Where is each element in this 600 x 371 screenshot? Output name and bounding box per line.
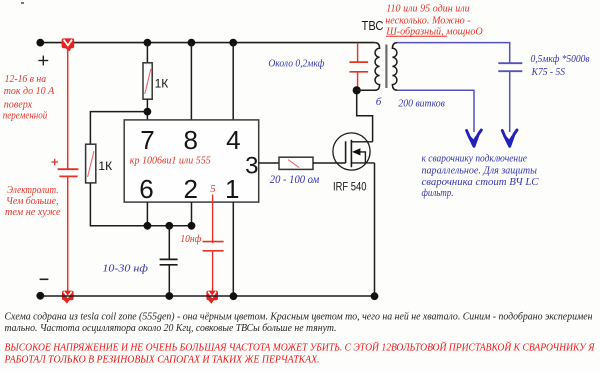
node pin4 top junction bbox=[229, 39, 237, 47]
svg-text:Схема содрана из tesla coil zo: Схема содрана из tesla coil zone (555gen… bbox=[5, 311, 593, 322]
node pin7/R1 top junction bbox=[144, 39, 152, 47]
resistor R1 1K bbox=[143, 63, 152, 99]
svg-text:200 витков: 200 витков bbox=[398, 98, 445, 110]
node C2 ground junction bbox=[165, 292, 173, 300]
wire C2 top lead bbox=[168, 226, 170, 259]
wire red electrolytic to bottom X bbox=[67, 176, 69, 293]
node pin8 top junction bbox=[188, 39, 196, 47]
wire R1 bottom to pin7 bbox=[146, 99, 148, 120]
output arrow right (blue) bbox=[502, 130, 517, 146]
transistor Q1 IRF540 bbox=[333, 133, 375, 170]
svg-text:5: 5 bbox=[210, 183, 216, 195]
node source ground junction bbox=[371, 292, 379, 300]
svg-text:0,5мкф *5000в: 0,5мкф *5000в bbox=[531, 53, 590, 65]
wire bottom rail bbox=[40, 295, 374, 297]
svg-text:ток до 10 А: ток до 10 А bbox=[4, 85, 55, 97]
underline transformer note bbox=[386, 35, 447, 37]
svg-text:1: 1 bbox=[225, 174, 239, 204]
wire pin4 drop bbox=[232, 43, 234, 120]
capacitor C4 0.2uf red across primary : top lead bbox=[357, 43, 359, 62]
svg-text:10нф: 10нф bbox=[180, 233, 201, 245]
resistor R2 1K bbox=[86, 144, 96, 183]
output arrow left (blue) bbox=[467, 130, 482, 146]
svg-text:110 или 95 один или: 110 или 95 один или bbox=[386, 3, 470, 15]
svg-text:сварочника стоит ВЧ LC: сварочника стоит ВЧ LC bbox=[422, 176, 540, 188]
resistor R3 red diagonal bbox=[288, 160, 299, 168]
svg-text:IRF 540: IRF 540 bbox=[333, 179, 367, 193]
svg-text:переменной: переменной bbox=[3, 110, 48, 122]
node pin1 ground junction bbox=[230, 292, 238, 300]
resistor R3 gate 20-100 ohm bbox=[279, 157, 313, 169]
svg-text:тально. Частота осциллятора ок: тально. Частота осциллятора около 20 Кгц… bbox=[5, 323, 337, 334]
wire pin6 drop bbox=[146, 202, 148, 226]
transformer T1 primary winding bbox=[357, 43, 380, 91]
wire pin2 drop bbox=[191, 202, 193, 226]
connector X mark ground (red) bbox=[206, 291, 218, 304]
svg-text:К75 - 5S: К75 - 5S bbox=[531, 66, 566, 78]
connector X mark bottom (red) bbox=[62, 291, 74, 304]
wire junction to R2 top bbox=[90, 112, 147, 145]
svg-text:Электролит.: Электролит. bbox=[7, 184, 59, 196]
node pin6 mid junction bbox=[144, 222, 152, 230]
wire pin3 lead bbox=[259, 162, 279, 164]
wire R3 to gate bbox=[313, 162, 346, 164]
svg-text:фильтр.: фильтр. bbox=[422, 187, 454, 199]
svg-text:3: 3 bbox=[245, 153, 258, 180]
capacitor electrolytic plates bbox=[58, 169, 79, 176]
minus label battery negative bbox=[40, 278, 49, 280]
capacitor C3 plates 10nf (red) bbox=[203, 242, 224, 251]
wire C2 bottom lead bbox=[168, 265, 170, 296]
wire source to ground rail bbox=[374, 163, 376, 296]
wire R1 top lead bbox=[146, 43, 148, 63]
capacitor C4 plates bbox=[350, 62, 369, 72]
svg-text:2: 2 bbox=[183, 174, 197, 204]
svg-text:20 - 100 ом: 20 - 100 ом bbox=[270, 174, 320, 186]
transformer T1 secondary winding bbox=[392, 43, 397, 91]
svg-text:7: 7 bbox=[140, 125, 154, 155]
capacitor C5 HV plates (blue) bbox=[498, 63, 522, 71]
svg-text:12-16 в на: 12-16 в на bbox=[5, 73, 47, 85]
wire pin1 drop to ground bbox=[232, 202, 234, 296]
svg-text:параллельное. Для защиты: параллельное. Для защиты bbox=[422, 164, 538, 176]
svg-text:Около 0,2мкф: Около 0,2мкф bbox=[268, 58, 324, 70]
op-amp U1 timer 555 box bbox=[124, 120, 259, 202]
svg-text:4: 4 bbox=[226, 125, 240, 155]
resistor R1 red diagonal bbox=[145, 69, 151, 94]
plus label battery positive bbox=[38, 56, 48, 66]
svg-text:ТВС: ТВС bbox=[362, 19, 384, 33]
node bottom left terminal bbox=[36, 292, 44, 300]
svg-text:Ш-образный, мощноО: Ш-образный, мощноО bbox=[385, 25, 482, 37]
artifact speck top-left bbox=[21, 2, 24, 4]
capacitor C2 plates 10-30nf bbox=[160, 259, 178, 264]
node C2 mid junction bbox=[165, 222, 173, 230]
connector X mark top (red) bbox=[62, 38, 75, 51]
node battery plus terminal bbox=[36, 39, 44, 47]
wire C4 bottom lead bbox=[357, 72, 359, 91]
wire R2 bottom to mid rail bbox=[90, 183, 191, 226]
wire C3 bottom red to ground X bbox=[212, 251, 214, 293]
transformer core bbox=[385, 45, 387, 89]
wire pin8 drop bbox=[190, 43, 192, 120]
wire secondary bottom lead (blue) bbox=[397, 90, 474, 132]
wire pin5 red drop bbox=[212, 195, 214, 244]
wire drain to transformer bbox=[357, 90, 373, 142]
wire secondary top lead (blue) bbox=[397, 43, 509, 64]
resistor R2 red diagonal bbox=[88, 151, 94, 177]
node pin2 mid junction bbox=[188, 222, 196, 230]
svg-text:б: б bbox=[376, 96, 382, 108]
svg-text:РАБОТАЛ ТОЛЬКО В РЕЗИНОВЫХ САП: РАБОТАЛ ТОЛЬКО В РЕЗИНОВЫХ САПОГАХ И ТАК… bbox=[4, 354, 320, 365]
wire top rail bbox=[40, 42, 375, 44]
svg-text:8: 8 bbox=[183, 125, 197, 155]
node R1/R2/pin7 junction bbox=[144, 108, 152, 116]
wire C5 bottom lead to output arrow bbox=[509, 71, 511, 132]
svg-text:6: 6 bbox=[139, 174, 153, 204]
svg-text:к сварочнику подключение: к сварочнику подключение bbox=[422, 153, 528, 165]
svg-text:1К: 1К bbox=[98, 159, 112, 173]
svg-text:кр 1006ви1 или 555: кр 1006ви1 или 555 bbox=[130, 154, 211, 166]
plus label electrolytic bbox=[51, 159, 58, 166]
svg-text:1К: 1К bbox=[155, 77, 169, 91]
svg-text:тем не хуже: тем не хуже bbox=[5, 206, 61, 218]
wire red from X to electrolytic bbox=[67, 47, 69, 169]
svg-text:ВЫСОКОЕ НАПРЯЖЕНИЕ И НЕ ОЧЕНЬ: ВЫСОКОЕ НАПРЯЖЕНИЕ И НЕ ОЧЕНЬ БОЛЬШАЯ ЧА… bbox=[5, 341, 596, 353]
node transformer primary bottom junction bbox=[353, 86, 361, 94]
svg-text:10-30 нф: 10-30 нф bbox=[102, 263, 148, 275]
